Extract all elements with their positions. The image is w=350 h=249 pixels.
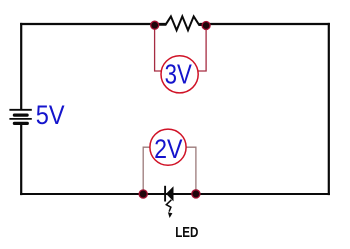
wire: top side, left of resistor [20, 23, 166, 25]
LED: cathode bar [164, 186, 166, 202]
node: resistor right junction [202, 22, 210, 30]
battery 5V: cell plate short thick (bottom) [14, 122, 27, 125]
resistor (zigzag) [155, 16, 206, 30]
wire: top side, right of resistor [199, 23, 330, 25]
voltmeter V1 (3V): right lead [198, 25, 206, 71]
LED: emission arrow head [168, 212, 173, 218]
svg-text:5V: 5V [36, 100, 65, 130]
wire: bottom side [20, 193, 330, 195]
voltmeter V1 (3V): left lead [155, 25, 162, 71]
LED: anode triangle (points left) [166, 187, 173, 201]
svg-text:3V: 3V [165, 58, 193, 89]
LED: emission zigzag arrow shaft [166, 200, 171, 212]
wire: left side upper segment (to battery + terminal) [20, 23, 22, 110]
voltmeter V2 (2V): left lead [143, 147, 150, 193]
battery 5V: cell plate long (top) [9, 109, 31, 111]
node: LED left junction [139, 190, 147, 198]
svg-text:2V: 2V [154, 133, 183, 164]
node: resistor left junction [151, 21, 159, 29]
voltmeter V1 (3V): body circle [161, 56, 198, 93]
wire: left side lower segment (from battery - terminal) [20, 124, 22, 196]
wire: right side [328, 23, 330, 195]
node: LED right junction [192, 190, 200, 198]
battery 5V: cell plate long (second) [9, 118, 31, 120]
svg-text:LED: LED [175, 225, 198, 241]
voltmeter V2 (2V): right lead [186, 147, 196, 193]
voltmeter V2 (2V): body circle [150, 129, 186, 165]
battery 5V: cell plate short thick [14, 113, 27, 116]
